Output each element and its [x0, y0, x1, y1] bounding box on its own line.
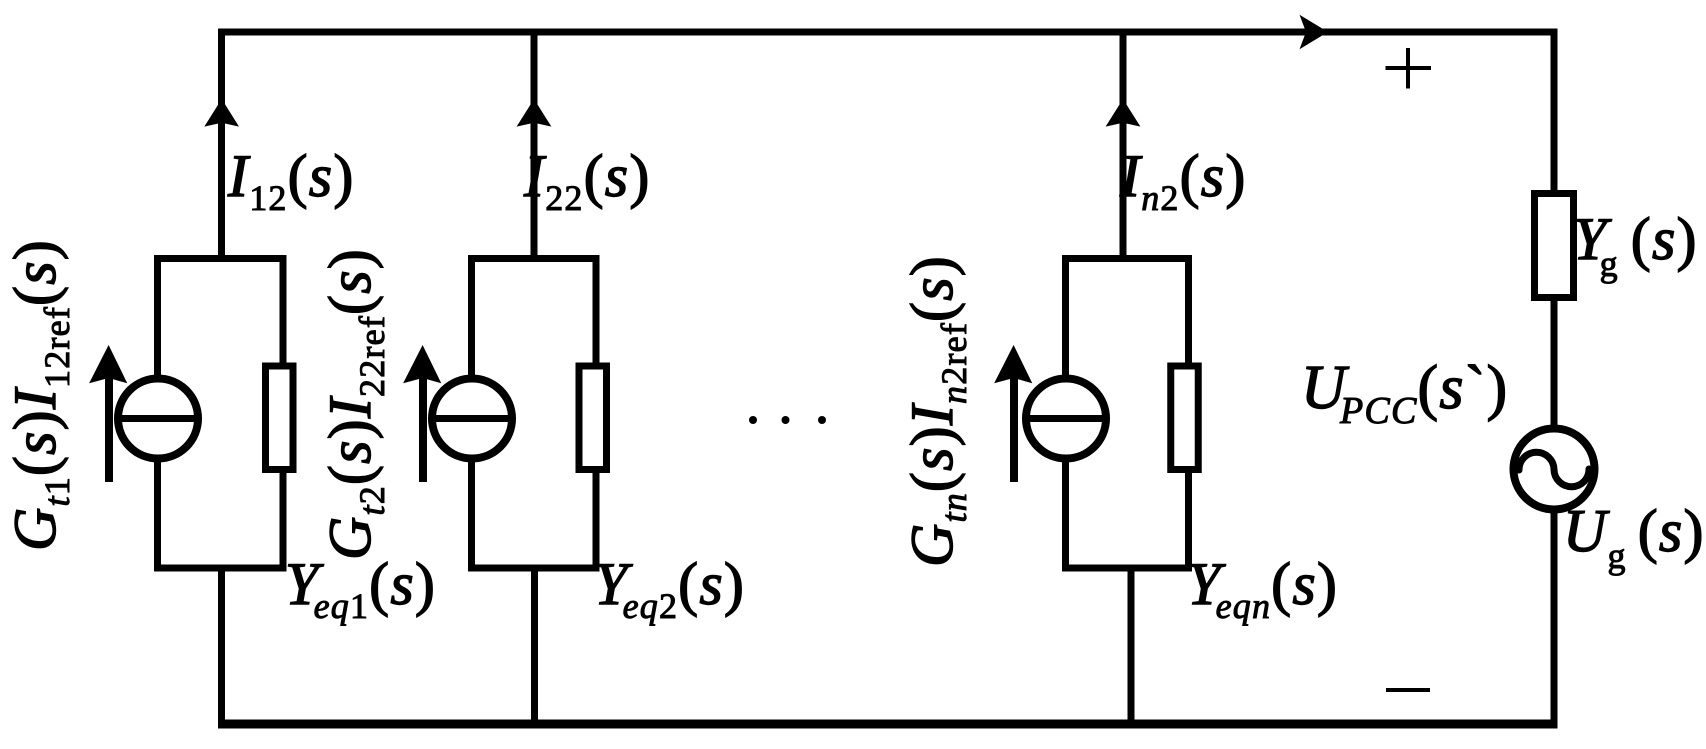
wire bottom rail	[218, 720, 1558, 729]
current source G2 bar	[429, 415, 516, 422]
current source G1 bar	[115, 415, 202, 422]
box branch2 outline	[472, 259, 597, 569]
arrow current I12	[204, 99, 239, 127]
arrow grid current on top rail	[1300, 15, 1329, 50]
wire branch2 bottom stub	[531, 568, 538, 728]
wire right vertical middle segment	[1551, 298, 1558, 430]
wire top rail	[218, 29, 1558, 36]
admittance Yeq2 rectangle	[579, 366, 607, 470]
wire right vertical bottom segment	[1551, 508, 1558, 729]
current source G2 circle	[432, 379, 512, 459]
arrow source2 direction	[419, 378, 427, 482]
admittance Yeqn rectangle	[1171, 366, 1199, 470]
wire branch3 bottom stub	[1128, 568, 1135, 728]
arrow current I22	[517, 99, 552, 127]
current source Gn bar	[1023, 415, 1110, 422]
svg-text:I12(s): I12(s)	[227, 143, 355, 218]
wire branch1 top stub	[218, 29, 225, 263]
svg-text:I22(s): I22(s)	[523, 143, 651, 218]
dots ellipsis	[749, 416, 757, 424]
box branch1 outline	[158, 259, 284, 569]
admittance Yg rectangle	[1535, 194, 1574, 298]
voltage source Ug sine	[1519, 452, 1589, 486]
polarity minus sign	[1386, 688, 1430, 692]
admittance Yeq1 rectangle	[266, 366, 294, 470]
voltage source Ug circle	[1514, 429, 1595, 510]
arrow current In2	[1106, 99, 1141, 127]
arrow source3 direction	[1010, 378, 1018, 482]
svg-text:In2(s): In2(s)	[1119, 143, 1247, 218]
wire branch1 bottom stub	[218, 568, 225, 728]
polarity plus sign	[1386, 66, 1432, 70]
wire branch3 top stub	[1120, 29, 1127, 263]
box branch3 outline	[1066, 259, 1189, 569]
arrow source1 direction	[105, 378, 113, 482]
current source G1 circle	[118, 379, 198, 459]
current source Gn circle	[1026, 379, 1106, 459]
wire branch2 top stub	[531, 29, 538, 263]
wire right vertical top segment	[1551, 29, 1558, 194]
